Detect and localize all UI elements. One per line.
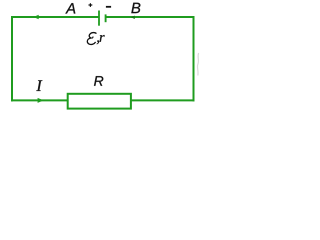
internal resistance r label (100, 35, 105, 42)
current arrow on top wire (pointing left) (33, 15, 38, 19)
small current arrow on top wire right (pointing left) (131, 16, 135, 19)
EMF script E middle loop (91, 37, 93, 39)
wire top-left segment (battery to corner A side) (12, 16, 99, 18)
node B label (131, 3, 140, 13)
current I label (36, 80, 42, 90)
battery cell U1 short plate (-) (105, 14, 107, 22)
wire top-right segment (corner to battery) (106, 16, 195, 18)
faint artifact mark near right wire (197, 53, 198, 76)
wire bottom-right segment (132, 99, 195, 101)
wire right vertical (193, 16, 195, 101)
comma of EMF label (97, 40, 99, 44)
wire bottom-left segment (11, 99, 68, 101)
resistor R box (68, 94, 131, 109)
EMF script E label (87, 33, 96, 45)
minus polarity mark (106, 6, 111, 8)
current arrow I on bottom wire (pointing right) (38, 98, 44, 103)
wire left vertical (11, 16, 13, 101)
battery cell U1 long plate (+) (98, 11, 100, 26)
node A label (65, 3, 75, 13)
plus polarity mark (89, 3, 93, 7)
resistor R value label (94, 76, 103, 86)
